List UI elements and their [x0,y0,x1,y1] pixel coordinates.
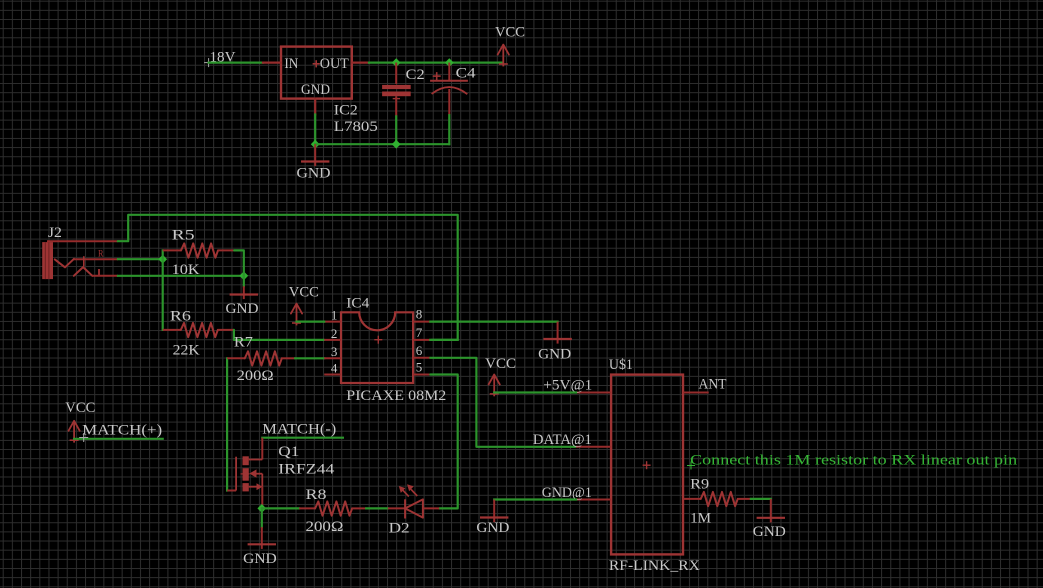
svg-text:R5: R5 [172,228,195,244]
transistor Q1 channel segments [243,456,249,491]
svg-text:200Ω: 200Ω [237,368,274,384]
IC4 pin number 2 [331,326,338,341]
IC2 OUT pin [352,61,369,63]
resistor R7 value 200ohm [237,368,274,384]
capacitor C4 pin bottom [448,89,450,115]
transistor Q1 gate lead [227,490,236,492]
wire pin7 to riser [430,339,457,341]
capacitor C2 label [406,67,425,83]
IC2 name label [334,103,358,119]
module U$1 name label [609,357,633,373]
module U$1 pin GND label [542,485,592,501]
svg-text:Connect this 1M resistor to RX: Connect this 1M resistor to RX linear ou… [690,453,1018,469]
LED D2 label [389,521,410,537]
wire pin6 to DATA [430,358,576,447]
IC2 pin label OUT [320,56,349,72]
module U$1 pin +5V stub [576,392,611,394]
power symbol VCC U$1 [489,375,500,397]
wire VCC to pin1 [297,321,325,323]
svg-text:IRFZ44: IRFZ44 [278,462,335,478]
connector J2 tip line [74,258,118,260]
svg-text:MATCH(-): MATCH(-) [262,422,336,438]
LED D2 anode lead [423,507,439,509]
IC4 pin 7 stub [413,339,430,341]
LED D2 cathode lead [388,507,405,509]
svg-text:VCC: VCC [65,400,95,416]
svg-text:R: R [98,249,104,259]
resistor R5 body [181,243,218,257]
resistor R7 lead left [227,357,245,359]
module U$1 pin DATA label [533,432,592,448]
connector J2 ring spring [74,267,93,276]
capacitor C4 top plate [430,80,468,82]
wire node up to R5 [162,250,164,259]
IC4 pin 3 stub [324,357,341,359]
ground symbol below IC2 [301,144,329,166]
svg-text:1M: 1M [690,511,711,527]
IC4 pin 6 stub [413,357,430,359]
module U$1 pin +5V label [543,377,592,393]
svg-text:R7: R7 [234,334,254,350]
svg-text:GND: GND [301,82,330,98]
resistor R9 lead left [683,498,700,500]
svg-text:R6: R6 [170,308,192,324]
power symbol VCC pin1 [291,304,302,326]
capacitor C4 polarity + [433,72,441,80]
LED D2 cathode bar [404,499,406,518]
svg-text:GND: GND [243,551,277,567]
connector J2 tip tick [83,256,85,266]
svg-text:IC2: IC2 [334,103,358,119]
net MATCH(+) anchor cross [79,433,88,442]
junction IC2 GND [311,140,320,149]
wire tip node down to R6 [162,259,164,330]
module U$1 value RF-LINK_RX [609,558,700,574]
ground symbol Q1 [248,527,276,549]
junction source node [257,504,266,513]
svg-text:ANT: ANT [699,377,727,393]
svg-text:3: 3 [331,344,338,359]
connector J2 label [48,225,62,241]
resistor R6 lead left [163,329,181,331]
power label VCC U$1 [485,356,516,372]
IC2 GND pin [314,99,316,115]
connector J2 tip spring [55,259,74,268]
IC2 IN pin [263,61,281,63]
IC4 pin number 8 [416,307,423,322]
svg-text:C2: C2 [406,67,425,83]
ground symbol R9 [757,499,785,523]
power symbol VCC top [498,45,509,67]
svg-text:OUT: OUT [320,56,349,72]
wire IC2 GND down [314,115,316,145]
resistor R5 lead left [163,249,181,251]
resistor R5 value 10K [172,262,200,278]
module U$1 pin ANT label [699,377,727,393]
wire J2 tip to node [118,258,163,260]
junction C2 bottom [392,140,401,149]
resistor R5 label [172,228,195,244]
svg-text:RF-LINK_RX: RF-LINK_RX [609,558,700,574]
svg-text:L7805: L7805 [334,119,378,135]
ground symbol GND@1 [480,500,508,523]
IC4 name label [346,296,370,312]
svg-text:C4: C4 [456,66,477,82]
resistor R9 body [701,492,738,506]
LED D2 triangle [405,499,423,517]
svg-text:200Ω: 200Ω [306,519,344,535]
module U$1 pin GND stub [576,499,611,501]
IC4 pin number 5 [416,359,423,374]
connector J2 sleeve body [42,242,53,279]
resistor R8 value 200ohm [306,519,344,535]
svg-text:IN: IN [284,56,298,72]
module U$1 origin cross [643,461,651,469]
IC4 value label PICAXE 08M2 [346,388,446,404]
wire MATCH(+) [74,438,163,440]
IC4 pin number 4 [331,360,338,375]
IC4 pin 4 stub [324,374,341,376]
transistor Q1 gate bar [235,457,237,491]
IC2 polarity + before OUT [313,60,320,67]
transistor Q1 drain connector [249,459,262,461]
svg-text:GND: GND [476,520,509,536]
svg-text:8: 8 [416,307,423,322]
transistor Q1 substrate-source bus [261,474,263,487]
svg-text:VCC: VCC [485,356,516,372]
IC4 pin 8 stub [413,321,430,323]
module U$1 pin ANT stub [683,392,709,394]
capacitor C2 pin bottom [395,96,397,116]
IC4 pin number 1 [331,308,338,323]
svg-text:10K: 10K [172,262,200,278]
wire gate riser [226,358,228,490]
power label VCC match [65,400,95,416]
capacitor C2 pin top [395,63,397,84]
svg-text:PICAXE 08M2: PICAXE 08M2 [346,388,446,404]
svg-text:R9: R9 [690,477,709,493]
transistor Q1 name label [278,444,299,460]
wire pin5 to LED [430,375,457,509]
resistor R7 label [234,334,254,350]
wire VCC to +5V pin [494,391,576,393]
wire GND@1 [494,498,576,500]
wire 18V input [209,61,263,63]
svg-text:J2: J2 [48,225,62,241]
transistor Q1 source lead [261,487,263,509]
svg-text:7: 7 [416,325,423,340]
wire J2 sleeve to top bus [118,215,458,340]
IC2 pin label IN [284,56,298,72]
resistor R7 body [245,351,282,365]
svg-text:IC4: IC4 [346,296,370,312]
net 18V anchor cross [204,58,213,67]
wire MATCH(-) [262,437,343,439]
wire R6 to IC4 pin2 [234,330,324,340]
IC IC4 box with notch [341,312,413,383]
wire pin8 to ground [430,321,557,323]
resistor R8 body [315,501,352,515]
svg-text:R8: R8 [306,487,327,503]
ground label pin8 [538,347,571,363]
resistor R8 label [306,487,327,503]
resistor R7 lead right [282,357,295,359]
module U$1 pin DATA stub [576,446,611,448]
connector J2 pin name R [98,249,104,259]
resistor R8 lead right [352,507,366,509]
wire C4 to ground bus [448,115,450,144]
svg-text:2: 2 [331,326,338,341]
capacitor C2 origin tick [393,98,400,100]
junction C4 top [445,58,454,67]
resistor R5 lead right [218,249,234,251]
svg-text:6: 6 [416,343,423,358]
ground label Q1 [243,551,277,567]
svg-text:MATCH(+): MATCH(+) [82,423,162,439]
annotation green note [690,453,1018,469]
power label VCC pin1 [289,285,319,301]
IC4 pin number 3 [331,344,338,359]
svg-text:VCC: VCC [495,25,525,41]
net label MATCH(-) [262,422,336,438]
wire J2 ring to node [118,275,244,277]
IC4 pin 1 stub [324,321,341,323]
svg-text:GND: GND [226,301,259,317]
ground symbol below R5 [230,286,258,299]
resistor R9 lead right [738,498,751,500]
transistor Q1 value IRFZ44 [278,462,335,478]
svg-text:U$1: U$1 [609,357,633,373]
power symbol VCC match [69,421,80,443]
svg-text:+5V@1: +5V@1 [543,377,592,393]
svg-text:GND: GND [538,347,571,363]
IC2 value label L7805 [334,119,378,135]
IC4 pin 5 stub [413,374,430,376]
voltage regulator IC2 box [281,47,352,99]
svg-text:22K: 22K [173,343,200,359]
wire ground bus bottom [315,143,449,145]
LED D2 emission arrows [399,484,418,496]
IC2 pin label GND [301,82,330,98]
junction ring node [239,271,248,280]
wire R9 to ground [751,498,771,500]
power label VCC top [495,25,525,41]
svg-text:VCC: VCC [289,285,319,301]
svg-text:4: 4 [331,360,338,375]
svg-text:GND: GND [297,166,331,182]
annotation origin cross [687,462,695,470]
resistor R9 label [690,477,709,493]
IC4 origin cross [374,336,382,344]
transistor Q1 source connector [249,483,263,490]
capacitor C2 plates [382,85,411,96]
svg-text:GND: GND [753,524,786,540]
svg-text:DATA@1: DATA@1 [533,432,592,448]
wire R8 to D2 [366,507,388,509]
junction tip node [158,255,167,264]
connector J2 ring line [92,275,118,277]
wire R5 right to ring node [234,250,244,275]
IC4 pin number 6 [416,343,423,358]
resistor R6 lead right [218,329,234,331]
wire OUT to VCC [369,61,503,63]
connector J2 sleeve line [47,240,118,242]
IC4 pin number 7 [416,325,423,340]
connector J2 ring tick [98,269,100,276]
wire source to R8 [262,507,299,509]
svg-text:D2: D2 [389,521,410,537]
IC4 pin 2 stub [324,339,341,341]
ground label below R5 [226,301,259,317]
net label 18V [210,50,236,66]
capacitor C4 pin top [448,63,450,81]
resistor R6 label [170,308,192,324]
ground label GND@1 [476,520,509,536]
ground label below IC2 [297,166,331,182]
module U$1 box [611,375,683,555]
resistor R8 lead left [299,507,315,509]
wire C2 to ground bus [395,116,397,144]
capacitor C4 bottom plate arc [432,87,468,94]
net label MATCH(+) [82,423,162,439]
capacitor C4 label [456,66,477,82]
svg-text:1: 1 [331,308,338,323]
transistor Q1 drain lead [261,438,263,460]
wire ring node down [243,276,245,286]
transistor Q1 substrate arrow [241,469,263,477]
wire R7 to IC4 pin3 [295,357,324,359]
ground symbol pin8 [543,322,571,344]
ground label R9 [753,524,786,540]
resistor R6 body [181,323,218,337]
resistor R9 value 1M [690,511,711,527]
svg-text:Q1: Q1 [278,444,299,460]
resistor R6 value 22K [173,343,200,359]
svg-text:5: 5 [416,359,423,374]
ground wire below Q1 [261,508,263,527]
junction C2 top [392,58,401,67]
